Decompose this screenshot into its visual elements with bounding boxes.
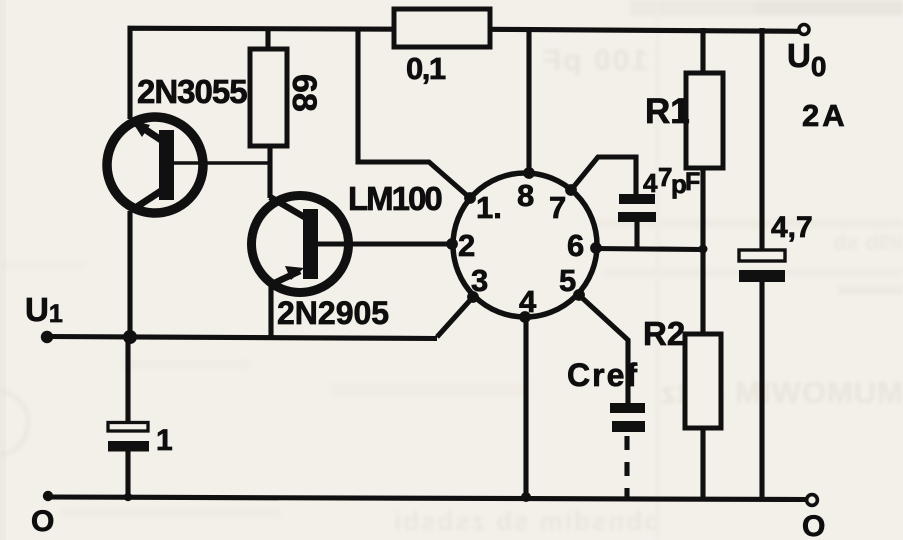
resistor 0,1 — [394, 9, 490, 47]
wire Q1 base line — [172, 161, 271, 165]
svg-text:0,1: 0,1 — [406, 51, 446, 86]
pin 6 dot — [590, 242, 602, 254]
wire top rail left segment — [130, 28, 396, 119]
resistor R2 — [685, 334, 721, 428]
pin 8 dot — [523, 167, 535, 179]
wire pin 5 to Cref — [579, 295, 628, 404]
pin 2 dot — [446, 238, 458, 250]
svg-text:1: 1 — [156, 424, 173, 457]
pin 4 dot — [519, 311, 531, 323]
wire C1 lower lead — [125, 450, 130, 498]
svg-text:O: O — [802, 510, 825, 540]
wire pin 1 to top rail left of R 0,1 — [358, 28, 470, 198]
svg-text:LM100: LM100 — [348, 180, 441, 217]
wire R1 bottom lead — [700, 167, 705, 249]
svg-text:obnsdim sb zsbsbi: obnsdim sb zsbsbi — [392, 506, 660, 536]
transistor Q2 2N2905 — [252, 196, 349, 293]
wire pin 6 to node R1/R2 — [595, 249, 701, 250]
svg-text:2N3055: 2N3055 — [137, 73, 247, 110]
svg-text:4,7: 4,7 — [771, 211, 813, 244]
node junction dot bottom rail / C1 — [124, 493, 132, 501]
svg-text:1.: 1. — [476, 190, 502, 225]
node junction dot pin6 / R1 / R2 — [699, 245, 708, 254]
capacitor Cref — [610, 403, 645, 432]
wire C1 upper lead — [125, 337, 130, 423]
wire C4 4,7 upper lead from top rail — [759, 28, 764, 251]
wire C4 4,7 lower lead — [759, 280, 764, 498]
svg-text:5: 5 — [559, 263, 576, 298]
svg-text:il9b sb: il9b sb — [833, 230, 903, 255]
wire Q1 collector drop below circle to node U1 line — [127, 211, 132, 339]
svg-text:8: 8 — [517, 178, 534, 213]
wire Cref dashed lead to bottom rail — [624, 436, 629, 499]
svg-text:3: 3 — [471, 263, 488, 298]
svg-text:6: 6 — [567, 228, 584, 263]
terminal U0 output — [799, 25, 809, 35]
pin 1 dot — [464, 192, 476, 204]
terminal 0 bottom left — [43, 491, 53, 501]
wire diagonal to pin 3 — [437, 297, 473, 337]
resistor R1 — [686, 73, 723, 168]
pin 7 dot — [565, 184, 577, 196]
svg-text:4: 4 — [643, 168, 658, 198]
wire pin 4 to bottom rail — [523, 318, 528, 498]
wire pin 7 to C2 47pF top — [571, 157, 636, 195]
svg-text:F: F — [685, 168, 700, 196]
wire R3 68 top lead — [265, 28, 270, 49]
svg-text:R1: R1 — [645, 92, 690, 131]
wire top rail right segment — [488, 29, 800, 31]
terminal 0 bottom right — [807, 495, 818, 506]
capacitor C1 value 1 — [108, 423, 149, 452]
label 47pF — [643, 162, 700, 199]
svg-text:68: 68 — [285, 74, 323, 112]
terminal U1 input — [41, 331, 53, 343]
capacitor C2 47pF — [618, 194, 656, 222]
wire bottom rail — [47, 497, 807, 500]
wire pin 8 to top rail — [526, 28, 531, 173]
svg-text:2N2905: 2N2905 — [277, 295, 389, 331]
svg-text:R2: R2 — [643, 315, 685, 352]
wire Q2 base line to pin 2 — [316, 241, 452, 246]
svg-text:2: 2 — [458, 228, 475, 263]
wire Q2 emitter drop to U1 line — [268, 283, 273, 337]
capacitor C4 4,7 — [739, 250, 785, 282]
wire R2 bottom lead — [700, 427, 705, 498]
svg-text:100 pF: 100 pF — [541, 44, 648, 77]
resistor 68 — [250, 49, 287, 146]
node junction dot bottom rail / pin4 — [521, 492, 531, 502]
svg-text:2A: 2A — [802, 98, 848, 133]
pin 3 dot — [467, 291, 479, 303]
op-amp U1 LM100 regulator can — [446, 167, 602, 323]
wire C2 47pF lower lead — [634, 221, 639, 249]
pin 5 dot — [573, 289, 585, 301]
node junction dot U1-line / Q1 — [123, 330, 137, 344]
svg-text:4: 4 — [519, 284, 537, 319]
wire R1 top lead — [700, 28, 705, 73]
svg-text:O: O — [31, 505, 54, 538]
wire R2 top lead — [700, 249, 705, 334]
wire R3 68 bottom lead to Q2 collector — [267, 145, 272, 198]
svg-text:Cref: Cref — [567, 357, 639, 393]
svg-text:7: 7 — [549, 190, 566, 225]
transistor Q1 2N3055 — [107, 117, 203, 213]
wire input line from U1 terminal — [48, 337, 437, 339]
